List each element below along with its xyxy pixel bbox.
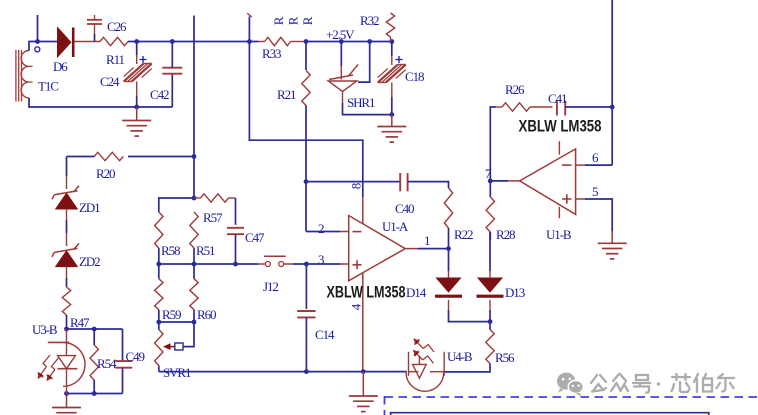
wire C42 bottom lead [171, 74, 173, 107]
svg-text:XBLW LM358: XBLW LM358 [519, 117, 602, 136]
wire ZD1 to ZD2 [66, 209, 68, 246]
junction R57 node [192, 196, 197, 201]
svg-text:U1-B: U1-B [546, 227, 572, 242]
wire R60 top [193, 264, 195, 279]
potentiometer SVR1 [155, 330, 163, 366]
svg-text:R33: R33 [262, 46, 281, 61]
wire rail to R33 [249, 41, 258, 43]
label J12 [263, 279, 278, 294]
resistor R57 [194, 194, 236, 202]
junction ref rail [367, 39, 372, 44]
label C40 [395, 201, 414, 216]
wire C14 top lead [305, 264, 307, 309]
capacitor C18 (electrolytic) [378, 65, 406, 83]
wire R51 bottom [193, 248, 195, 264]
wire R21 top lead [305, 42, 307, 71]
svg-text:D13: D13 [505, 285, 525, 300]
wire C47 bottom lead [235, 234, 237, 264]
junction pin1 node [446, 246, 451, 251]
wire R54 bottom lead [93, 380, 95, 394]
junction C47 bottom [233, 262, 238, 267]
optocoupler U3-B body arc [63, 342, 85, 386]
diode D14 [435, 278, 462, 296]
label 2 [318, 221, 324, 236]
label XBLW LM358 (U1-B) [519, 117, 602, 136]
pin 8 stub U1-A [362, 197, 364, 224]
svg-text:U3-B: U3-B [32, 322, 58, 337]
resistor R20 [94, 152, 123, 160]
wire C18 bottom lead [391, 83, 393, 115]
label 1 [424, 233, 430, 248]
resistor R11 [100, 37, 128, 45]
wire R28 bottom [489, 232, 491, 240]
bottom box outline [391, 413, 709, 415]
label R59 [162, 307, 181, 322]
wire D14 cathode [449, 300, 491, 322]
diode D13 [477, 278, 504, 296]
svg-text:SHR1: SHR1 [347, 95, 375, 110]
wire rail C42 to power branch [172, 41, 249, 43]
label D13 [505, 285, 525, 300]
resistor R26 [496, 103, 553, 111]
label 5 [592, 184, 598, 199]
ground below C24 [122, 107, 151, 136]
label C41 [548, 91, 567, 106]
capacitor C24 (electrolytic) [124, 64, 152, 82]
wire R47 bottom [66, 315, 68, 329]
rotated letter R #1 [271, 16, 286, 25]
wire C47 top lead [235, 198, 237, 225]
op-amp U1-B [520, 149, 576, 215]
wire transformer top to node [29, 42, 38, 51]
wire R58 top [159, 198, 194, 212]
svg-text:T1C: T1C [38, 79, 58, 94]
svg-text:C47: C47 [245, 230, 265, 245]
emission arrows U3-B [38, 355, 59, 381]
label 7 [485, 166, 492, 181]
transformer T1C winding [21, 51, 33, 98]
svg-text:R26: R26 [505, 82, 525, 97]
watermark text 号 [633, 375, 650, 393]
label R26 [505, 82, 525, 97]
wire ZD2 to R47 [66, 267, 68, 287]
svg-text:C41: C41 [548, 91, 567, 106]
rotated letter R #3 [300, 16, 315, 25]
wire SVR1 bottom to rail [158, 366, 160, 372]
label XBLW LM358 (U1-A) [327, 283, 406, 302]
svg-text:R57: R57 [203, 210, 223, 225]
wire pin2 [306, 231, 349, 233]
wire right bus [611, 0, 613, 165]
ground below U1-A pin4 [349, 372, 378, 412]
wire J12 to pin3 [293, 263, 349, 265]
svg-text:R32: R32 [360, 13, 379, 28]
plus sign C24 [140, 56, 147, 63]
power stubs U1-B [558, 141, 560, 218]
wire D13 cathode [489, 300, 491, 322]
wire pin6 [576, 164, 613, 166]
junction R54 bottom [92, 391, 97, 396]
transformer T1C core [16, 50, 22, 102]
ground below U3-B [52, 394, 81, 415]
label C18 [405, 69, 424, 84]
svg-text:R: R [300, 16, 315, 25]
wire R58 bottom [158, 248, 160, 264]
wire C26 to rail [94, 24, 96, 42]
junction C14 bottom [304, 369, 309, 374]
svg-text:SVR1: SVR1 [163, 365, 191, 380]
wire R20 lead right [128, 156, 194, 158]
wire R59-R60 bottom link [159, 321, 194, 323]
optocoupler U4-B body arc [406, 373, 444, 392]
wire C40 to R22 top [408, 182, 449, 188]
label C47 [245, 230, 265, 245]
svg-text:XBLW LM358: XBLW LM358 [327, 283, 406, 302]
wire C24 top lead [136, 42, 138, 65]
label R47 [70, 315, 90, 330]
svg-text:C24: C24 [100, 74, 120, 89]
svg-text:R59: R59 [162, 307, 181, 322]
watermark middle dot [657, 382, 661, 386]
capacitor C42 [162, 68, 182, 74]
capacitor C26 stub [94, 15, 96, 20]
wire R59 bottom [158, 310, 160, 322]
wire bottom rail [159, 371, 407, 373]
wire left bus [193, 16, 195, 199]
wire R56 bottom to U4-B [444, 364, 490, 372]
junction D6 anode [35, 39, 40, 44]
wire C41 to bus [565, 106, 612, 108]
wire C49 top lead [122, 329, 124, 361]
svg-text:R21: R21 [277, 87, 296, 102]
junction C18 rail [389, 39, 394, 44]
wire R20 to ZD1 [66, 157, 68, 190]
svg-text:R11: R11 [106, 52, 124, 67]
wire R20 lead left [67, 156, 95, 158]
junction C42 top [170, 39, 175, 44]
wire D6 cathode to R11 [75, 41, 101, 43]
label +2.5V [326, 27, 355, 42]
capacitor C26 [87, 20, 102, 24]
svg-text:R20: R20 [96, 166, 115, 181]
label C14 [315, 327, 335, 342]
junction R58 bottom [156, 262, 161, 267]
label R57 [203, 210, 223, 225]
svg-text:U4-B: U4-B [447, 349, 473, 364]
junction R59 bottom [156, 320, 161, 325]
wire feedback pin2 to C40 [306, 181, 400, 183]
wire C49 bottom lead [122, 368, 124, 394]
capacitor C40 [400, 173, 407, 191]
resistor R60 [190, 279, 198, 310]
watermark wechat icon [557, 373, 583, 397]
label R21 [277, 87, 296, 102]
wire R11 to node [128, 41, 137, 43]
wire R56 top lead [489, 322, 491, 330]
junction C24 top [134, 39, 139, 44]
label U1-B [546, 227, 572, 242]
svg-text:4: 4 [348, 303, 363, 310]
junction C24 bottom [134, 105, 139, 110]
wiper arrow [163, 343, 175, 350]
zener diode ZD1 [52, 186, 79, 209]
optocoupler U3-B LED [48, 329, 78, 394]
watermark text 芯 [672, 374, 691, 392]
junction feedback node [304, 179, 309, 184]
emission arrows U4-B [413, 338, 434, 363]
wire mid rail [159, 263, 259, 265]
label R32 [360, 13, 379, 28]
label R11 [106, 52, 124, 67]
wire pin7 up [490, 107, 496, 181]
svg-text:R47: R47 [70, 315, 90, 330]
label R54 [97, 356, 117, 371]
wire rail C24 to C42 [137, 41, 173, 43]
shunt regulator SHR1 [328, 65, 358, 92]
junction R33 right +2.5V node [304, 39, 309, 44]
label U4-B [447, 349, 473, 364]
junction pin7 [488, 179, 493, 184]
zener diode ZD2 [52, 243, 79, 266]
resistor R56 [486, 330, 494, 364]
label C24 [100, 74, 120, 89]
wiper box [175, 343, 183, 350]
rotated letter R #2 [285, 16, 300, 25]
wire C18 top lead [391, 42, 393, 66]
label R58 [161, 243, 180, 258]
svg-text:R60: R60 [197, 307, 216, 322]
svg-text:8: 8 [348, 183, 363, 189]
ground below SHR1/C18 [377, 115, 406, 143]
svg-text:C42: C42 [150, 87, 169, 102]
label R20 [96, 166, 115, 181]
junction R60 bottom [192, 320, 197, 325]
junction pin4/ground [361, 369, 366, 374]
label R56 [495, 350, 515, 365]
wire bottom transformer to C42 [29, 98, 172, 107]
wire pin5 [576, 199, 613, 232]
wire pin1 output [405, 248, 448, 250]
svg-text:R: R [271, 16, 286, 25]
label pin 4 [348, 303, 363, 310]
label SVR1 [163, 365, 191, 380]
wire pin7 down R28 [489, 181, 491, 197]
wire R54 top lead [93, 329, 95, 345]
wire SVR1 top [158, 322, 160, 330]
capacitor C49 [115, 361, 132, 368]
junction D13/R56 [488, 319, 493, 324]
svg-text:6: 6 [592, 150, 599, 165]
watermark text 乐 [717, 374, 735, 392]
junction C18 bottom [389, 112, 394, 117]
op-amp U1-A [349, 216, 406, 281]
svg-text:R58: R58 [161, 243, 180, 258]
wire R59 top [158, 264, 160, 279]
pin 4 stub U1-A [362, 273, 364, 372]
svg-text:D14: D14 [406, 285, 427, 300]
svg-text:ZD2: ZD2 [79, 254, 100, 269]
label R28 [496, 227, 515, 242]
label R60 [197, 307, 216, 322]
wire D13 anode [489, 232, 491, 278]
svg-text:R54: R54 [97, 356, 117, 371]
svg-text:U1-A: U1-A [382, 219, 409, 234]
junction R20 right [192, 154, 197, 159]
resistor R54 [90, 345, 98, 380]
wire +2.5V rail right [306, 41, 392, 43]
wire pin7 [490, 180, 519, 182]
junction SHR1 cathode rail [339, 39, 344, 44]
wire wiper link [183, 322, 194, 347]
wire stub above D6 anode [37, 15, 39, 42]
plus sign C18 [396, 56, 403, 63]
label C49 [126, 349, 145, 364]
label D6 [53, 59, 68, 74]
resistor R51 [190, 212, 198, 248]
capacitor C41 [557, 101, 565, 116]
wire opto branch [67, 328, 123, 330]
svg-text:1: 1 [424, 233, 430, 248]
wire power branch to U1-A pin8 [249, 17, 362, 198]
svg-text:R56: R56 [495, 350, 515, 365]
wire opto bottom link [67, 393, 123, 395]
label 6 [592, 150, 599, 165]
wire C14 bottom lead [305, 317, 307, 371]
resistor R32 [386, 13, 394, 42]
junction opto bottom [64, 391, 69, 396]
svg-text:R28: R28 [496, 227, 515, 242]
optocoupler U4-B LED [409, 356, 445, 378]
svg-text:R22: R22 [454, 227, 473, 242]
wire R21 bottom to pin2 corner [305, 106, 307, 232]
wire C24 bottom lead [136, 82, 138, 108]
resistor R21 [302, 71, 310, 106]
polarity dot circle [35, 47, 40, 52]
svg-text:C18: C18 [405, 69, 424, 84]
resistor R47 [62, 287, 70, 315]
svg-text:D6: D6 [53, 59, 68, 74]
label pin 8 [348, 183, 363, 189]
label ZD2 [79, 254, 100, 269]
tick top of power branch [247, 13, 252, 17]
svg-text:5: 5 [592, 184, 598, 199]
svg-text:R51: R51 [196, 243, 215, 258]
label ZD1 [79, 200, 100, 215]
label R33 [262, 46, 281, 61]
label R51 [196, 243, 215, 258]
svg-text:2: 2 [318, 221, 324, 236]
svg-text:C14: C14 [315, 327, 335, 342]
resistor R33 [259, 37, 307, 45]
watermark text 众 [611, 374, 628, 391]
label U1-A [382, 219, 409, 234]
label U3-B [32, 322, 58, 337]
label C42 [150, 87, 169, 102]
jumper J12 [258, 256, 293, 266]
junction U3-B top [64, 327, 69, 332]
junction power branch [247, 39, 252, 44]
label D14 [406, 285, 427, 300]
wire SHR1 ref [358, 42, 370, 83]
svg-text:C26: C26 [107, 19, 127, 34]
wire D6 anode [38, 41, 58, 43]
label R22 [454, 227, 473, 242]
junction C14 top [304, 262, 309, 267]
diode D6 [58, 28, 74, 58]
svg-text:C40: C40 [395, 201, 414, 216]
wire SHR1 cathode [340, 42, 342, 67]
resistor R28 [486, 197, 494, 232]
svg-text:R: R [285, 16, 300, 25]
svg-text:J12: J12 [263, 279, 278, 294]
resistor R59 [155, 279, 163, 310]
capacitor C47 [227, 228, 244, 234]
label SHR1 [347, 95, 375, 110]
ground below pin5 [598, 232, 627, 259]
wire SHR1 anode [343, 92, 392, 115]
wire R60 bottom [193, 310, 195, 322]
svg-text:C49: C49 [126, 349, 145, 364]
wire R22 bottom to pin1 [448, 228, 450, 249]
optocoupler U4-B terminals [409, 352, 445, 376]
wire pin1 to D14 [448, 249, 450, 278]
watermark text 伯 [694, 374, 712, 392]
svg-text:ZD1: ZD1 [79, 200, 100, 215]
junction R54 top [92, 327, 97, 332]
dashed divider line [385, 396, 758, 415]
label C26 [107, 19, 127, 34]
junction R51 bottom [192, 262, 197, 267]
capacitor C14 [297, 311, 315, 317]
label 3 [318, 252, 324, 267]
watermark text 公 [591, 375, 606, 392]
label T1C [38, 79, 58, 94]
resistor R58 [155, 212, 163, 248]
resistor R22 [444, 188, 452, 228]
junction C41 right [610, 105, 615, 110]
wire C42 top lead [171, 42, 173, 68]
